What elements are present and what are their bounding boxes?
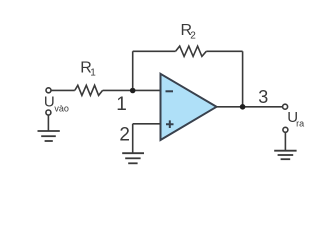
op-amp plus sign (166, 120, 174, 128)
feedback wire top left segment (133, 50, 176, 52)
svg-text:vào: vào (54, 104, 69, 114)
resistor R1 (75, 85, 103, 95)
svg-text:1: 1 (116, 94, 127, 115)
feedback wire right vertical (down to output node) (242, 51, 244, 107)
feedback wire left vertical (node1 up) (132, 51, 134, 88)
ground (output) (274, 151, 296, 160)
node 1 junction dot (130, 88, 136, 94)
ground (input) (38, 131, 60, 141)
svg-text:3: 3 (258, 87, 268, 107)
output terminal circle (U ra top) (283, 104, 288, 109)
wire lower output terminal to ground (284, 133, 286, 151)
feedback wire top right segment (206, 50, 242, 52)
op-amp U1 triangle (161, 74, 217, 140)
output wire op-amp to node 3 (217, 106, 243, 108)
wire from input terminal to R1 (51, 89, 75, 91)
svg-text:2: 2 (119, 124, 130, 145)
wire node 2 down to ground (132, 124, 134, 153)
resistor R2 (176, 46, 207, 56)
wire node 2 to op-amp non-inverting input (133, 123, 161, 125)
input terminal circle (U vao top) (46, 88, 51, 93)
svg-text:U: U (44, 94, 55, 111)
wire node1 to op-amp inverting input (133, 89, 161, 91)
svg-text:ra: ra (296, 118, 304, 128)
ground (node 2) (122, 153, 144, 163)
op-amp minus sign (166, 90, 174, 92)
svg-text:1: 1 (90, 68, 96, 79)
wire from R1 to node 1 (103, 89, 133, 91)
wire lower input terminal to ground (47, 115, 49, 131)
wire node 3 to output terminal (243, 106, 283, 108)
lower input terminal circle (46, 110, 51, 115)
svg-text:2: 2 (190, 30, 196, 41)
output node junction dot (240, 104, 246, 110)
lower output terminal circle (283, 127, 288, 132)
